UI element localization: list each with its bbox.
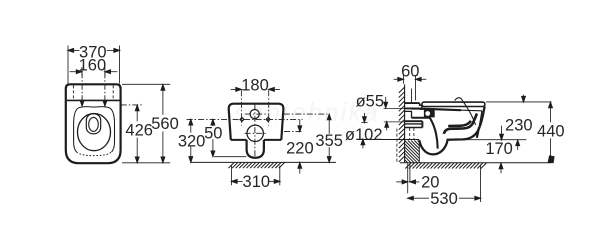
bowl outer profile [419, 106, 485, 154]
floor line middle [190, 161, 336, 163]
lid bar [422, 102, 485, 106]
duct block right edge [418, 143, 420, 163]
svg-text:310: 310 [243, 173, 271, 191]
hole extension right dash-dot [268, 90, 270, 125]
outlet pipe o102 [405, 120, 423, 122]
trap ring [86, 114, 100, 134]
hole extension left dash-dot [240, 90, 242, 125]
floor line right [400, 162, 551, 164]
o55 leader arrow [385, 97, 387, 103]
bowl opening ellipse [78, 114, 111, 151]
dimension 426 reference dash-dot [121, 104, 144, 106]
dimension 320 [190, 120, 192, 162]
bowl front wedge [477, 128, 479, 138]
dimension 220 [299, 120, 301, 174]
hidden edge dashed left [72, 85, 74, 100]
bowl water channel thickening [448, 121, 471, 126]
dimension 170 top arrow [517, 146, 519, 150]
svg-text:50: 50 [204, 125, 222, 143]
svg-text:426: 426 [125, 122, 153, 140]
floor hatch middle [229, 163, 285, 169]
dimension 180 [231, 88, 280, 90]
hidden edge dashed right [112, 85, 114, 100]
outlet leg [247, 140, 264, 158]
svg-text:220: 220 [286, 139, 314, 157]
outlet pipe top reference [384, 121, 405, 123]
rear body bottom edge [231, 139, 281, 141]
fixing hole left [239, 117, 245, 123]
o102 top arrow [363, 113, 365, 117]
fixing holes axis line [187, 118, 303, 120]
dimension 20 [396, 164, 419, 194]
inlet circle o55 [250, 110, 259, 119]
bracket bar [412, 117, 431, 119]
bowl bottom reference line [463, 139, 526, 141]
outlet bottom reference line [214, 156, 246, 158]
svg-text:ø102: ø102 [345, 126, 383, 144]
dimension 310 [232, 166, 280, 186]
bowl inner contour thin [455, 98, 476, 125]
dimension 355 [328, 120, 330, 157]
centerline hole right [104, 72, 106, 101]
hinge bracket [424, 110, 435, 118]
dimension 230 bottom arrow [501, 126, 503, 135]
svg-text:560: 560 [151, 115, 179, 133]
seat outer outline [74, 107, 115, 152]
dimension 160 [70, 67, 118, 76]
inlet horizontal axis inner [245, 113, 267, 115]
inlet pipe o55 [405, 103, 420, 108]
duct block hatch [405, 141, 420, 163]
svg-text:170: 170 [485, 140, 513, 158]
svg-text:ø55: ø55 [356, 92, 384, 110]
dimension 230 top arrow [523, 95, 525, 97]
dimension 50 [212, 120, 214, 157]
floor hatch right [405, 163, 486, 169]
bowl front inner line [477, 111, 482, 137]
under-bowl reference line [359, 139, 419, 141]
hidden pipe in wall [396, 129, 398, 163]
seat outer bottom dotted arc [77, 152, 112, 156]
dimension 426 [136, 105, 138, 162]
fixing hole right [265, 117, 271, 123]
dimension 440 bottom solid arrow [548, 155, 555, 163]
wall line [404, 84, 406, 162]
lid left step [420, 108, 426, 110]
hidden drain edges [409, 128, 411, 139]
bracket step [405, 111, 412, 117]
outlet circle o102 [247, 125, 263, 141]
dimension 60 [394, 75, 427, 101]
ceramic rim top [420, 109, 461, 111]
outlet horizontal axis [245, 132, 267, 134]
bowl water channel curve [444, 114, 477, 134]
svg-text:20: 20 [421, 174, 439, 192]
center vertical axis [254, 104, 256, 158]
supply pipe line [411, 89, 413, 103]
dimension 560 [122, 84, 170, 163]
bowl trap inner curve [430, 118, 438, 149]
svg-text:180: 180 [241, 76, 269, 94]
svg-text:160: 160 [79, 57, 107, 75]
o55 bottom arrow [386, 127, 388, 130]
svg-text:320: 320 [178, 133, 206, 151]
o102 bottom arrow [362, 145, 364, 149]
svg-text:440: 440 [537, 122, 565, 140]
svg-text:530: 530 [430, 190, 458, 208]
o102 top stub [361, 121, 367, 123]
toilet plan body [66, 84, 121, 163]
svg-text:60: 60 [401, 63, 419, 81]
trap inner oval [89, 117, 99, 131]
dimension 440 [550, 103, 552, 156]
seat top reference line [486, 101, 551, 103]
svg-text:355: 355 [315, 132, 343, 150]
wall hatch [399, 87, 405, 162]
dimension 370 [68, 46, 120, 84]
centerline hole left [81, 72, 83, 101]
inlet pipe bottom reference [384, 107, 405, 109]
cistern band line [67, 99, 120, 101]
dimension 170 bottom arrow [500, 169, 502, 173]
outlet axis extension right [284, 131, 303, 133]
dimension 530 [408, 165, 481, 203]
svg-text:230: 230 [505, 117, 533, 135]
inlet axis extension right [284, 113, 328, 115]
rear body outline [229, 104, 284, 140]
